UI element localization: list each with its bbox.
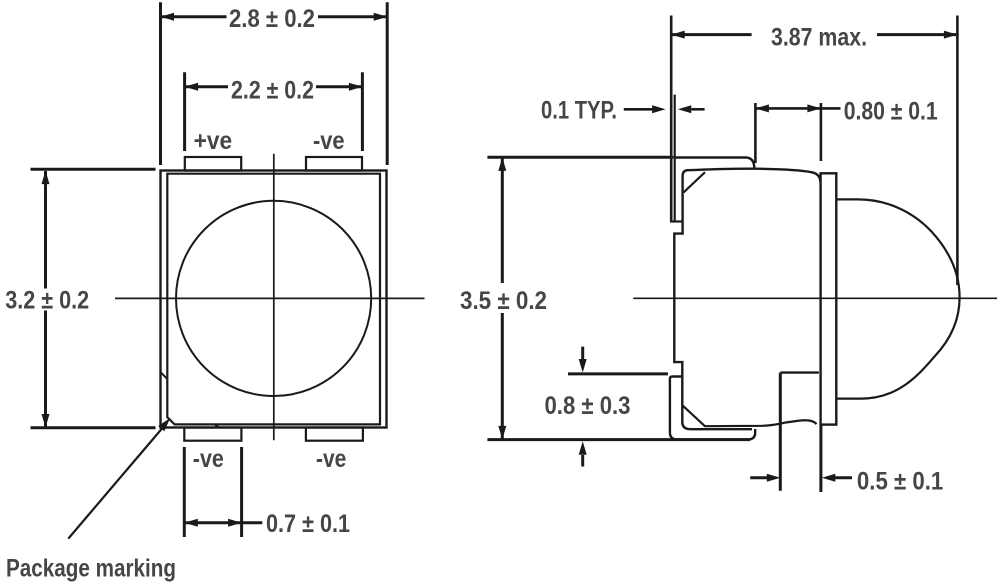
centerline horizontal (side view): [633, 297, 997, 299]
svg-text:3.5 ± 0.2: 3.5 ± 0.2: [460, 287, 547, 315]
svg-text:2.2 ± 0.2: 2.2 ± 0.2: [231, 77, 314, 105]
pad top-left (+ve): [185, 157, 241, 171]
bend diagonal and body bottom edge: [683, 406, 817, 427]
package marking leader arrow: [68, 418, 170, 539]
bottom-right lead step: [780, 371, 819, 373]
extension line right (3.87): [956, 16, 959, 286]
svg-text:-ve: -ve: [193, 445, 224, 473]
dimension 0.5 +/- 0.1: [750, 474, 852, 482]
svg-text:Package marking: Package marking: [6, 555, 176, 583]
svg-text:+ve: +ve: [194, 127, 233, 155]
bottom notch tick: [215, 424, 220, 427]
lens circle: [176, 201, 371, 396]
body inner outline with chamfered corner: [167, 174, 380, 425]
dimension 3.87 max.: [671, 31, 957, 39]
dimension 2.8 +/- 0.2: [161, 2, 388, 165]
extension line (0.5 right): [819, 425, 822, 492]
body outer outline (top view): [161, 171, 387, 428]
lead top surface (side view): [675, 158, 754, 169]
J-lead foot outer outline: [670, 377, 755, 440]
chamfer diagonal (body top-left): [684, 172, 706, 192]
pad bottom-right (-ve): [306, 428, 363, 441]
dimension 0.1 TYP. arrows: [624, 105, 705, 113]
centerline horizontal (top view): [115, 297, 425, 299]
lead inner edge line (0.1 typ): [674, 95, 676, 221]
body left side with notch and inner foot fillet: [674, 222, 752, 430]
flange plate: [821, 173, 837, 424]
dimension 2.2 +/- 0.2: [185, 72, 363, 151]
pad top-right (-ve): [306, 157, 362, 171]
svg-text:-ve: -ve: [316, 445, 346, 473]
svg-text:3.87 max.: 3.87 max.: [771, 24, 867, 52]
corner chamfer tick: [161, 372, 168, 379]
svg-text:3.2 ± 0.2: 3.2 ± 0.2: [5, 287, 89, 315]
svg-text:0.1 TYP.: 0.1 TYP.: [541, 97, 617, 125]
lead bottom cap: [670, 220, 683, 222]
body left edge upper + corner: [683, 170, 689, 221]
body top edge (side view): [688, 169, 820, 182]
dimension 0.7 +/- 0.1: [184, 447, 262, 537]
dome lens: [836, 199, 959, 398]
centerline vertical (top view): [273, 154, 275, 441]
pad bottom-left (-ve): [184, 428, 241, 441]
dimension 0.8 +/- 0.3: [568, 347, 668, 467]
svg-text:0.5 ± 0.1: 0.5 ± 0.1: [857, 468, 943, 496]
dimension 3.2 +/- 0.2: [31, 169, 156, 428]
dimension 0.80 +/- 0.1: [755, 103, 840, 163]
svg-text:0.80 ± 0.1: 0.80 ± 0.1: [844, 97, 938, 125]
dimension 3.5 +/- 0.2: [487, 157, 750, 439]
svg-text:0.8 ± 0.3: 0.8 ± 0.3: [545, 392, 631, 420]
svg-text:2.8 ± 0.2: 2.8 ± 0.2: [229, 5, 315, 33]
svg-text:0.7 ± 0.1: 0.7 ± 0.1: [266, 510, 350, 538]
extension line / lead edge (0.5 left): [779, 373, 782, 491]
svg-text:-ve: -ve: [313, 127, 345, 155]
extension line left (3.87) / lead outer edge: [670, 16, 673, 222]
